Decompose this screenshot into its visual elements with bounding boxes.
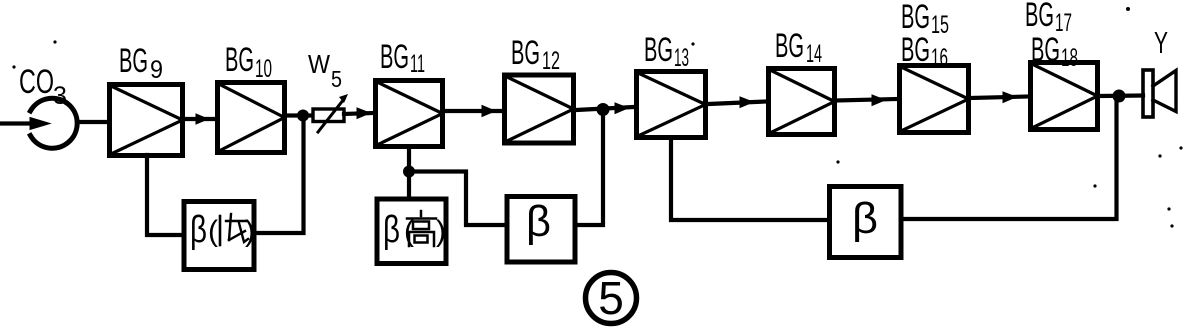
label W5 bbox=[308, 49, 342, 92]
wire BG17/18 to speaker bbox=[1100, 93, 1143, 98]
node A junction after BG10 bbox=[297, 110, 309, 122]
node C junction before speaker bbox=[1113, 90, 1126, 103]
label BG15 BG16 bbox=[901, 0, 949, 72]
svg-text:β: β bbox=[852, 194, 878, 243]
wire BG12 to BG13 with arrow bbox=[576, 103, 634, 114]
feedback loop 2: wire BG11 bottom to beta-high bbox=[407, 149, 411, 196]
potentiometer W5 bbox=[313, 94, 348, 132]
svg-text:5: 5 bbox=[331, 66, 342, 92]
svg-text:β: β bbox=[383, 209, 400, 251]
wire BG14 to BG15/16 with arrow bbox=[837, 95, 897, 106]
label CO3 bbox=[19, 63, 67, 110]
feedback loop 3: wire BG13 bottom to beta 3 bbox=[671, 140, 827, 220]
label beta(low) bbox=[190, 209, 255, 251]
svg-text:BG: BG bbox=[225, 41, 254, 79]
svg-text:BG: BG bbox=[119, 42, 148, 80]
svg-text:W: W bbox=[308, 49, 330, 79]
svg-text:CO: CO bbox=[19, 63, 54, 101]
node B junction after BG12 bbox=[597, 103, 610, 116]
label beta(high) bbox=[383, 209, 446, 251]
svg-text:13: 13 bbox=[674, 44, 689, 72]
svg-text:BG: BG bbox=[380, 38, 409, 76]
wire BG16 to BG17/18 with arrow bbox=[971, 92, 1028, 103]
svg-text:(: ( bbox=[208, 215, 218, 248]
wire node D to beta block 2 bbox=[409, 172, 504, 226]
svg-text:3: 3 bbox=[53, 82, 67, 110]
svg-text:16: 16 bbox=[931, 44, 948, 72]
svg-text:BG: BG bbox=[511, 34, 540, 72]
svg-text:12: 12 bbox=[542, 47, 560, 75]
svg-text:BG: BG bbox=[901, 31, 930, 69]
scan specks bbox=[12, 7, 1182, 228]
svg-text:15: 15 bbox=[931, 11, 949, 39]
svg-text:10: 10 bbox=[255, 55, 272, 83]
label BG9 bbox=[119, 42, 163, 84]
label BG13 bbox=[644, 31, 689, 72]
input wire with arrow bbox=[0, 118, 50, 130]
wire node A down to beta-low right bbox=[258, 118, 304, 233]
label BG17 BG18 bbox=[1025, 0, 1078, 72]
wire BG10 to node A bbox=[286, 113, 313, 117]
feedback block beta (loop 3) bbox=[830, 187, 902, 258]
amplifier block BG15/BG16 bbox=[900, 66, 969, 133]
node D junction below BG11 bbox=[403, 166, 415, 178]
amplifier block BG17/BG18 bbox=[1031, 63, 1098, 130]
wire BG9 to BG10 with arrow bbox=[184, 114, 216, 124]
svg-text:BG: BG bbox=[775, 27, 804, 65]
speaker Y bbox=[1143, 70, 1176, 117]
label BG14 bbox=[775, 27, 822, 68]
wire beta 2 to node B bbox=[577, 112, 603, 225]
feedback loop 1: wire BG9 bottom to beta-low bbox=[147, 155, 182, 235]
amplifier block BG10 bbox=[218, 83, 285, 153]
feedback block beta (loop 2) bbox=[507, 197, 575, 263]
amplifier block BG14 bbox=[769, 69, 835, 135]
wire BG11 to BG12 with arrow bbox=[445, 106, 503, 117]
svg-text:BG: BG bbox=[644, 31, 673, 69]
svg-text:BG: BG bbox=[1031, 31, 1060, 69]
svg-text:β: β bbox=[526, 197, 551, 246]
svg-text:5: 5 bbox=[598, 272, 624, 324]
svg-text:): ) bbox=[245, 215, 255, 248]
svg-text:18: 18 bbox=[1061, 44, 1078, 72]
wire W5 to BG11 with arrow bbox=[344, 108, 373, 119]
figure number 5 circled bbox=[586, 272, 637, 324]
amplifier block BG11 bbox=[376, 81, 443, 147]
source CO3 circle bbox=[30, 98, 77, 148]
wire beta 3 to node C bbox=[902, 98, 1117, 219]
label BG10 bbox=[225, 41, 272, 83]
amplifier block BG9 bbox=[110, 85, 183, 156]
svg-text:Y: Y bbox=[1154, 25, 1168, 60]
svg-text:β: β bbox=[190, 209, 207, 251]
label BG11 bbox=[380, 38, 425, 78]
feedback block beta(high) bbox=[377, 199, 446, 264]
svg-text:BG: BG bbox=[1025, 0, 1054, 34]
wire BG13 to BG14 with arrow bbox=[708, 97, 766, 108]
wire source to BG9 bbox=[77, 120, 108, 124]
svg-text:): ) bbox=[436, 215, 446, 248]
amplifier block BG12 bbox=[505, 75, 574, 143]
amplifier block BG13 bbox=[637, 72, 706, 138]
svg-text:11: 11 bbox=[410, 50, 425, 78]
svg-text:9: 9 bbox=[150, 56, 163, 84]
svg-text:14: 14 bbox=[806, 40, 822, 68]
label BG12 bbox=[511, 34, 560, 75]
feedback block beta(low) bbox=[184, 202, 254, 270]
